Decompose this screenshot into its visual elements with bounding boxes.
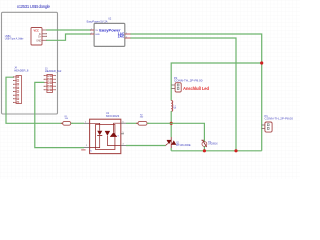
U2 pin tip dots — [90, 30, 91, 31]
P1 pin 2 stub — [262, 128, 265, 130]
header J3 body — [47, 75, 53, 93]
connector P2 body — [175, 83, 181, 92]
wire R3 to bus — [203, 146, 205, 150]
junction dot R3 bus — [203, 149, 206, 152]
svg-text:1: 1 — [85, 121, 86, 123]
bus wire bottom — [171, 150, 262, 152]
U2 pin 2AC right stub — [125, 37, 131, 39]
wire U2 2AC to vertical x236 — [131, 38, 237, 151]
svg-text:cc2531 USB dongle: cc2531 USB dongle — [17, 4, 51, 9]
USB pin tip dots — [46, 30, 47, 31]
P2 inner pins — [177, 84, 179, 86]
group box cc2531 USB dongle — [2, 12, 58, 114]
svg-text:2: 2 — [126, 36, 127, 38]
optocoupler U1 body — [90, 119, 121, 153]
triac Q1 — [166, 137, 177, 148]
svg-text:CONN-TH_2P-P8.00: CONN-TH_2P-P8.00 — [174, 78, 203, 82]
module U2 body — [94, 23, 125, 46]
U1 triac bottom lead — [107, 136, 120, 146]
USB1 pin 4 GND stub — [42, 39, 46, 41]
wire U1 pin4 to Q1 gate — [126, 145, 166, 147]
junction dot at 171.2,123.3 — [170, 122, 173, 125]
header J4 body — [16, 76, 22, 104]
varistor R3 — [201, 140, 206, 147]
header J3 inner pads — [48, 75, 52, 91]
U1 inner rect — [96, 125, 115, 150]
svg-text:Anschluß Led: Anschluß Led — [183, 86, 209, 91]
svg-text:CONN-TH_2P-P8.00: CONN-TH_2P-P8.00 — [265, 117, 294, 121]
svg-text:1: 1 — [126, 32, 127, 34]
J4 pin tip dots — [13, 76, 14, 77]
USB1 pin 1 VCC stub — [42, 29, 46, 31]
U1 pin2 stub — [84, 147, 90, 149]
wire J4 pin1 to R1 — [6, 77, 63, 123]
svg-text:2: 2 — [86, 145, 87, 147]
U1 LED anode lead — [90, 123, 100, 130]
svg-text:2AC: 2AC — [118, 34, 125, 38]
U2 pin 1 left stub — [91, 29, 94, 31]
U1 LED cathode bar — [97, 135, 102, 137]
svg-text:MOC3023: MOC3023 — [106, 114, 120, 118]
U2 pin 1AC right stub — [125, 33, 131, 35]
wire R1 to U1 pin1 — [71, 122, 84, 124]
wire R2 to varistor R3 — [147, 123, 204, 141]
inductor L1 — [171, 101, 173, 112]
junction dot at 261.7,63 — [260, 61, 263, 64]
USB1 pin 2 D- stub — [42, 33, 46, 35]
header J4 inner pads — [17, 76, 19, 103]
P1 inner pins — [267, 124, 269, 126]
wire L1 to Q1 — [170, 111, 172, 137]
svg-text:HEADER_5x2: HEADER_5x2 — [45, 69, 62, 73]
R1 lead stubs — [61, 122, 63, 124]
svg-text:BT136-600E: BT136-600E — [176, 143, 191, 147]
header J4 pins — [14, 77, 16, 103]
J3 pin tip dots — [44, 75, 45, 76]
svg-text:14D391K: 14D391K — [208, 144, 218, 146]
USB1 pin 3 D+ stub — [42, 35, 46, 37]
svg-text:VCC: VCC — [34, 29, 39, 32]
connector USB1 body — [31, 28, 42, 46]
wire J3 pin to U1 pin2 — [35, 82, 84, 147]
U2 pin 2 left stub — [91, 33, 94, 35]
svg-text:GND: GND — [95, 34, 100, 36]
svg-text:1: 1 — [91, 28, 92, 30]
U1 pin6 stub — [121, 122, 126, 124]
U1 LED triangle — [97, 131, 102, 136]
U1 triac top lead — [114, 123, 121, 132]
resistor R2 body — [138, 121, 147, 125]
P1 pin 1 stub — [262, 124, 265, 126]
P2 pin 2 stub — [171, 88, 175, 90]
wire U1 pin6 to R2 — [126, 122, 138, 124]
wire node to P2 — [171, 63, 262, 101]
svg-text:GND: GND — [36, 41, 41, 43]
U1 pin5 stub — [121, 133, 124, 135]
svg-text:HEADER_8: HEADER_8 — [14, 68, 29, 72]
junction dot 2AC bus — [234, 149, 237, 152]
header J3 left pins — [44, 76, 55, 90]
resistor R1 body — [63, 121, 71, 125]
wire U2 1AC to right vertical — [131, 34, 262, 151]
svg-text:USB-Type A_Male: USB-Type A_Male — [5, 38, 24, 41]
U1 pin2 name dash — [81, 149, 85, 151]
wire Q1 to bus — [170, 148, 172, 151]
svg-text:2: 2 — [91, 32, 92, 34]
wire USB VCC to U2 pin1 — [46, 29, 90, 31]
wire USB GND to U2 pin2 — [46, 34, 90, 40]
U1 pin4 stub — [121, 145, 126, 147]
U1 LED cathode lead — [90, 136, 100, 148]
U1 triac triangles — [105, 131, 110, 135]
P2 pin 1 stub — [171, 84, 175, 86]
R2 lead stubs — [136, 122, 138, 124]
U1 pin1 stub — [84, 122, 90, 124]
connector P1 body — [265, 122, 272, 132]
